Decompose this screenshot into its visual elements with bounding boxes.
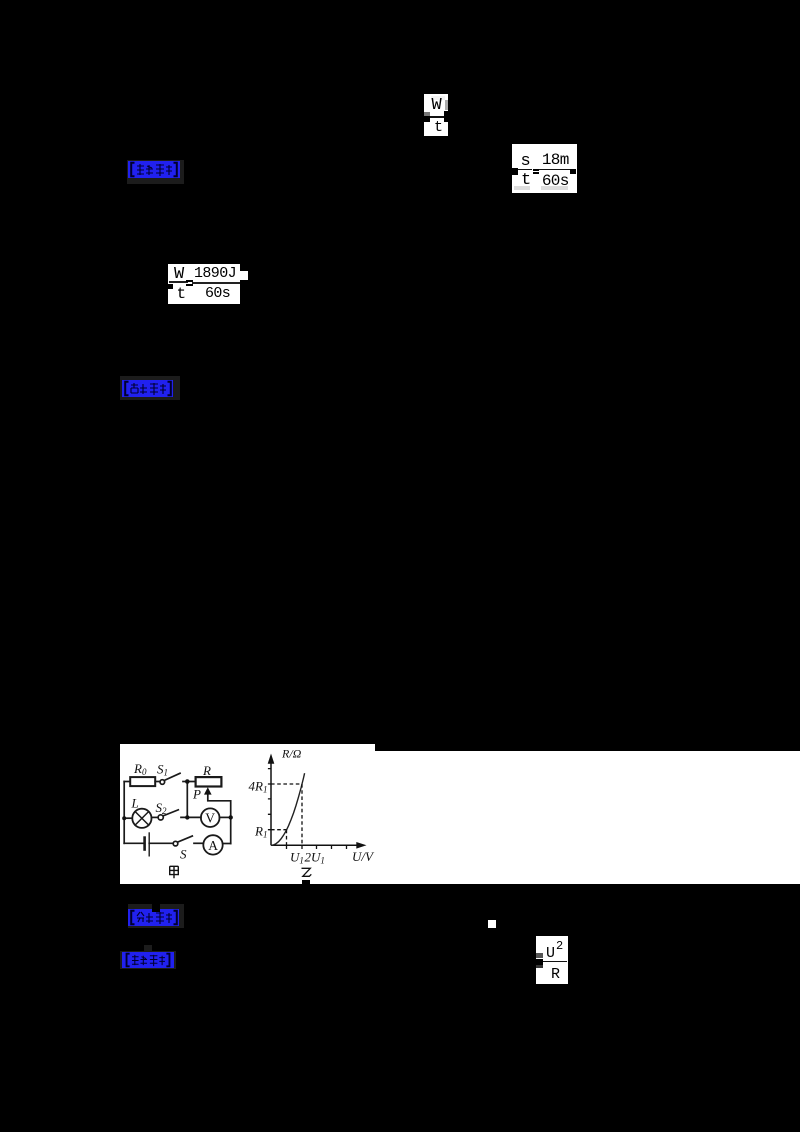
voltmeter V circle: [201, 808, 220, 827]
black notch over label 3: [152, 904, 160, 912]
partial equals at left/right edges: [512, 168, 518, 175]
switch S2 lever: [163, 810, 178, 816]
wire A to right rail: [223, 843, 231, 845]
x ticks: [287, 845, 347, 849]
junction dot middle: [185, 815, 189, 819]
formula image v=s/t=18m/60s : white box: [512, 144, 578, 193]
wire R0 to S1: [155, 781, 160, 783]
svg-text:P: P: [192, 787, 201, 802]
svg-text:R/Ω: R/Ω: [281, 747, 302, 761]
switch S1 lever: [165, 773, 180, 780]
wire: lamp row left: [124, 817, 132, 819]
figure white background, left part: [120, 744, 375, 884]
svg-text:R: R: [202, 763, 211, 778]
slider P arrowhead: [204, 787, 212, 794]
svg-text:V: V: [205, 811, 215, 826]
figure white background, right part (starts lower): [375, 751, 800, 884]
dashed line R1 horizontal: [271, 829, 287, 831]
wire: top row to R0: [124, 781, 130, 783]
slider P shaft and wire to right rail: [208, 792, 231, 844]
dashed line 4R1 horizontal: [271, 783, 302, 785]
R/U curve: [271, 773, 305, 845]
resistor R: [196, 777, 222, 786]
switch S lever: [178, 836, 193, 842]
label jia (Chinese): [170, 866, 179, 878]
blue label 3 [fen xi]: [128, 904, 184, 928]
svg-text:A: A: [208, 838, 218, 853]
formula image P=W/t=1890J/60s : white box: [168, 264, 240, 305]
junction dot left lamp row: [122, 816, 126, 820]
dashed line 2U1 vertical: [301, 784, 303, 845]
wire S to ammeter: [194, 842, 203, 844]
formula image P=U^2/R : white box: [536, 936, 568, 984]
wire lamp to S2: [152, 816, 158, 818]
svg-text:U/V: U/V: [352, 849, 375, 864]
junction dot right: [229, 815, 233, 819]
resistor R0: [130, 777, 155, 786]
x axis: [271, 844, 357, 846]
black square below yi label: [302, 880, 310, 889]
lamp L circle: [132, 809, 151, 828]
svg-text:S: S: [180, 847, 187, 862]
y axis: [270, 758, 272, 845]
equals between fractions: [533, 169, 540, 171]
wire: left vertical: [123, 782, 125, 844]
partial equals marks at box edges: [424, 112, 430, 116]
battery short plate: [143, 838, 146, 850]
switch S pivot: [173, 841, 178, 846]
wire: vertical junction to lamp row: [186, 782, 188, 818]
wire to junction: [183, 781, 195, 783]
blue label 4 [jie da]: [120, 951, 176, 969]
partial equals at left edge: [536, 953, 543, 959]
wire V to right rail: [220, 816, 231, 818]
switch S2 pivot: [158, 815, 163, 820]
dashed line U1 vertical: [286, 830, 288, 845]
fraction bar: [429, 116, 444, 118]
wire S2 to junction: [181, 816, 201, 818]
blue label 1 [jie da]: [127, 160, 184, 185]
y ticks: [268, 769, 271, 830]
wire: bottom row left: [124, 842, 144, 844]
svg-text:L: L: [131, 796, 139, 811]
label yi (Chinese): [302, 868, 312, 876]
switch S1 pivot: [160, 780, 165, 785]
lamp X: [135, 812, 149, 826]
formula image P=W/t : white box: [424, 94, 448, 136]
junction dot top: [185, 779, 190, 784]
ammeter A circle: [203, 835, 222, 854]
blue label 2 [dian ping]: [120, 376, 180, 400]
battery long plate: [148, 833, 150, 856]
small white square: [488, 920, 496, 928]
wire battery to S: [149, 842, 173, 844]
